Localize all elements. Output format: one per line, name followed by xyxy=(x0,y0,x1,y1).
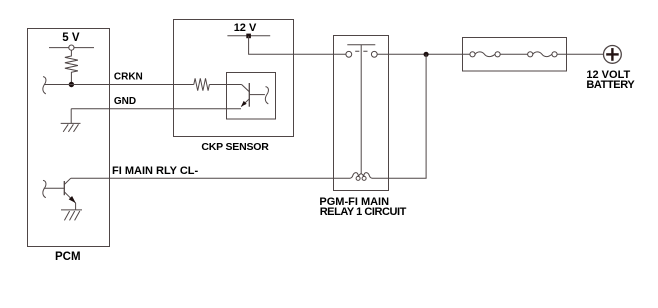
wire: resistor to sensor element xyxy=(209,84,241,86)
fuse F1 xyxy=(470,52,500,57)
relay armature vertical xyxy=(360,45,362,173)
node: junction dot xyxy=(424,52,429,57)
wire break squiggle (sensor output) xyxy=(265,87,268,104)
svg-text:CKP SENSOR: CKP SENSOR xyxy=(201,141,269,153)
svg-text:GND: GND xyxy=(114,96,136,107)
wire: coil to right vertical xyxy=(372,177,427,179)
relay contact terminal right xyxy=(371,51,377,57)
wire: fuse box to battery xyxy=(557,53,603,55)
wire GND xyxy=(71,108,241,110)
svg-text:FI MAIN RLY CL-: FI MAIN RLY CL- xyxy=(112,165,199,177)
svg-text:12 V: 12 V xyxy=(234,22,257,34)
transistor Q1 xyxy=(64,178,75,210)
relay contact terminal left xyxy=(346,51,352,57)
svg-text:BATTERY: BATTERY xyxy=(586,79,635,91)
relay contact top bar xyxy=(347,44,375,46)
wire FI MAIN RLY CL- (left segment to relay coil) xyxy=(71,177,350,179)
wire CRKN xyxy=(44,84,194,86)
5V supply bar xyxy=(49,47,94,49)
transistor Q1 base wire xyxy=(44,187,65,189)
wire: GND drop to ground xyxy=(70,109,72,124)
12V supply bar xyxy=(227,35,270,37)
wire between fuses xyxy=(500,53,527,55)
PCM box xyxy=(28,29,110,247)
CKP SENSOR box xyxy=(174,20,294,137)
wire: 12V down and to relay xyxy=(249,36,346,54)
svg-text:CRKN: CRKN xyxy=(114,72,143,83)
transistor Q2 (hall element output) xyxy=(241,83,265,107)
node: CRKN junction dot xyxy=(69,82,74,87)
12V terminal square xyxy=(246,34,251,39)
svg-text:PCM: PCM xyxy=(55,251,81,263)
wire break squiggle (PCM CRKN input) xyxy=(43,77,46,94)
wire: relay contact to junction xyxy=(377,53,470,55)
resistor R2 (CKP sensor internal) xyxy=(194,78,210,90)
PGM-FI MAIN RELAY 1 CIRCUIT box xyxy=(334,36,389,191)
svg-text:RELAY 1 CIRCUIT: RELAY 1 CIRCUIT xyxy=(320,206,407,218)
ground symbol (Q1 emitter) xyxy=(61,210,82,221)
battery positive terminal xyxy=(604,46,622,64)
relay coil L1 xyxy=(350,173,372,181)
fuse F2 xyxy=(528,52,558,57)
sensor element box xyxy=(227,73,276,120)
svg-text:5 V: 5 V xyxy=(62,32,80,44)
relay contact dashed blade xyxy=(355,50,367,52)
resistor R (5V pull-up) xyxy=(65,50,78,84)
fuse box xyxy=(463,38,567,72)
transistor Q1 (PCM driver) base squiggle xyxy=(43,180,46,197)
ground symbol (GND) xyxy=(61,123,81,131)
wire: junction down to coil line xyxy=(425,54,427,178)
5V supply terminal circle xyxy=(69,45,74,50)
